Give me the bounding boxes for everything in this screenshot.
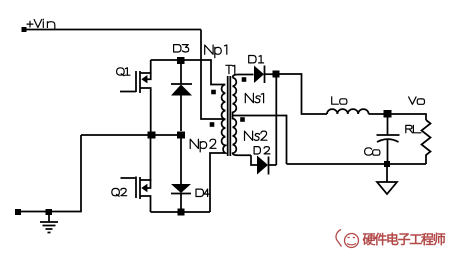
diode D4 bbox=[171, 139, 209, 213]
wire D1 node to Lo bbox=[276, 74, 327, 114]
D4 cathode bar bbox=[171, 193, 191, 195]
watermark logo bbox=[336, 230, 358, 248]
label Lo bbox=[332, 97, 347, 104]
node ground junction bbox=[46, 209, 53, 215]
wire mid rail left drop to ground run bbox=[18, 135, 81, 212]
wire top rail Q1 drain to D3 node to transformer jog bbox=[151, 60, 221, 85]
Q1 source stub bbox=[140, 88, 151, 135]
Q1 drain stub bbox=[140, 60, 151, 73]
node bottom rail bbox=[178, 209, 185, 216]
diode D3 bbox=[171, 64, 192, 131]
Co top plate bbox=[377, 134, 400, 136]
Co bottom stub bbox=[387, 140, 389, 162]
transistor Q2 bbox=[112, 135, 151, 212]
label Np1 bbox=[205, 45, 227, 58]
node mid rail D3/D4 bbox=[177, 132, 185, 139]
secondary winding Ns2 bbox=[233, 116, 251, 155]
primary winding Np2 bbox=[221, 119, 225, 153]
transformer core bbox=[228, 76, 231, 156]
wire secondary center tap bbox=[233, 116, 287, 165]
node D3 top bbox=[177, 57, 185, 64]
wire +Vin horizontal rail bbox=[24, 29, 201, 31]
label T1 bbox=[226, 65, 235, 73]
Q2 channel bar bbox=[139, 177, 141, 199]
ground output bbox=[377, 167, 397, 194]
D3 cathode bar bbox=[171, 83, 192, 85]
D1 triangle bbox=[254, 66, 264, 84]
label Ns2 bbox=[245, 131, 267, 140]
label Q2 bbox=[112, 188, 127, 196]
Co top stub bbox=[387, 118, 389, 136]
wire Lo to output node bbox=[369, 113, 387, 115]
wire +Vin drop to center tap bbox=[201, 30, 224, 120]
wire node to RL bbox=[387, 114, 426, 120]
wire D1 node down to D2 cathode bbox=[275, 74, 277, 165]
label Np2 bbox=[190, 139, 216, 152]
Q2 body arrow bbox=[141, 184, 147, 192]
label D4 bbox=[196, 189, 209, 196]
Q2 arrow stub bbox=[147, 179, 151, 188]
Q2 source stub bbox=[140, 196, 151, 212]
Q1 gate bar bbox=[135, 71, 137, 92]
D1 wire to node bbox=[265, 73, 277, 75]
D4 anode wire from mid rail bbox=[180, 139, 182, 185]
node mid rail Q1/Q2 bbox=[148, 132, 156, 139]
resistor RL bbox=[406, 120, 431, 164]
polarity dot Ns2 bbox=[240, 117, 245, 122]
Q1 channel bar bbox=[139, 71, 141, 93]
node +Vin terminal bbox=[22, 27, 27, 32]
inductor Lo bbox=[327, 97, 369, 114]
D1 cathode bar bbox=[264, 66, 266, 84]
label +Vin bbox=[27, 19, 55, 29]
wire output bottom rail bbox=[287, 163, 427, 165]
diode D2 bbox=[251, 147, 276, 175]
Q1 body arrow bbox=[141, 75, 147, 83]
polarity dot Np2 bbox=[210, 122, 215, 127]
capacitor Co bbox=[365, 118, 400, 162]
Q2 drain stub bbox=[140, 135, 151, 180]
ground earth symbol bbox=[40, 214, 58, 233]
transistor Q1 bbox=[117, 60, 151, 135]
transformer T1 bbox=[190, 45, 267, 156]
D3 triangle bbox=[171, 85, 192, 96]
D2 wire to riser bbox=[269, 164, 277, 166]
label Q1 bbox=[117, 68, 130, 76]
svg-text:硬件电子工程师: 硬件电子工程师 bbox=[363, 232, 446, 247]
polarity dot Np1 bbox=[211, 90, 216, 95]
RL zigzag bbox=[422, 120, 431, 164]
D2 cathode bar bbox=[268, 157, 270, 175]
label D3 bbox=[174, 45, 189, 52]
label Ns1 bbox=[245, 93, 263, 102]
label D2 bbox=[254, 147, 270, 154]
D4 triangle bbox=[171, 184, 191, 193]
D3 anode wire from node bbox=[180, 64, 182, 84]
primary winding Np1 bbox=[221, 85, 225, 120]
D2 triangle bbox=[257, 156, 268, 175]
secondary winding Ns1 bbox=[233, 75, 254, 117]
label Co bbox=[365, 148, 380, 155]
D4 wire to bottom rail bbox=[180, 194, 182, 213]
Q1 gate lead bbox=[120, 91, 136, 93]
wire bottom rail bbox=[151, 211, 211, 213]
label RL bbox=[406, 125, 421, 132]
node Co bottom bbox=[384, 161, 390, 167]
Q2 gate lead bbox=[121, 177, 137, 179]
D2 anode wire from Ns2 bbox=[251, 155, 257, 165]
D3 wire to mid rail bbox=[180, 96, 182, 132]
wire middle rail bbox=[81, 134, 183, 136]
node ground left terminal bbox=[15, 209, 21, 215]
Q1 arrow stub bbox=[147, 72, 151, 79]
diode D1 bbox=[249, 56, 276, 84]
Lo winding bbox=[327, 109, 369, 114]
Q2 gate bar bbox=[135, 177, 137, 199]
wire Np2 bottom riser bbox=[210, 153, 221, 212]
label Vo bbox=[409, 97, 425, 104]
node D1 output bbox=[273, 71, 280, 78]
Co bottom plate curved bbox=[377, 139, 399, 142]
node output Vo bbox=[384, 110, 392, 118]
polarity dot Ns1 bbox=[242, 77, 247, 82]
label D1 bbox=[249, 56, 264, 63]
